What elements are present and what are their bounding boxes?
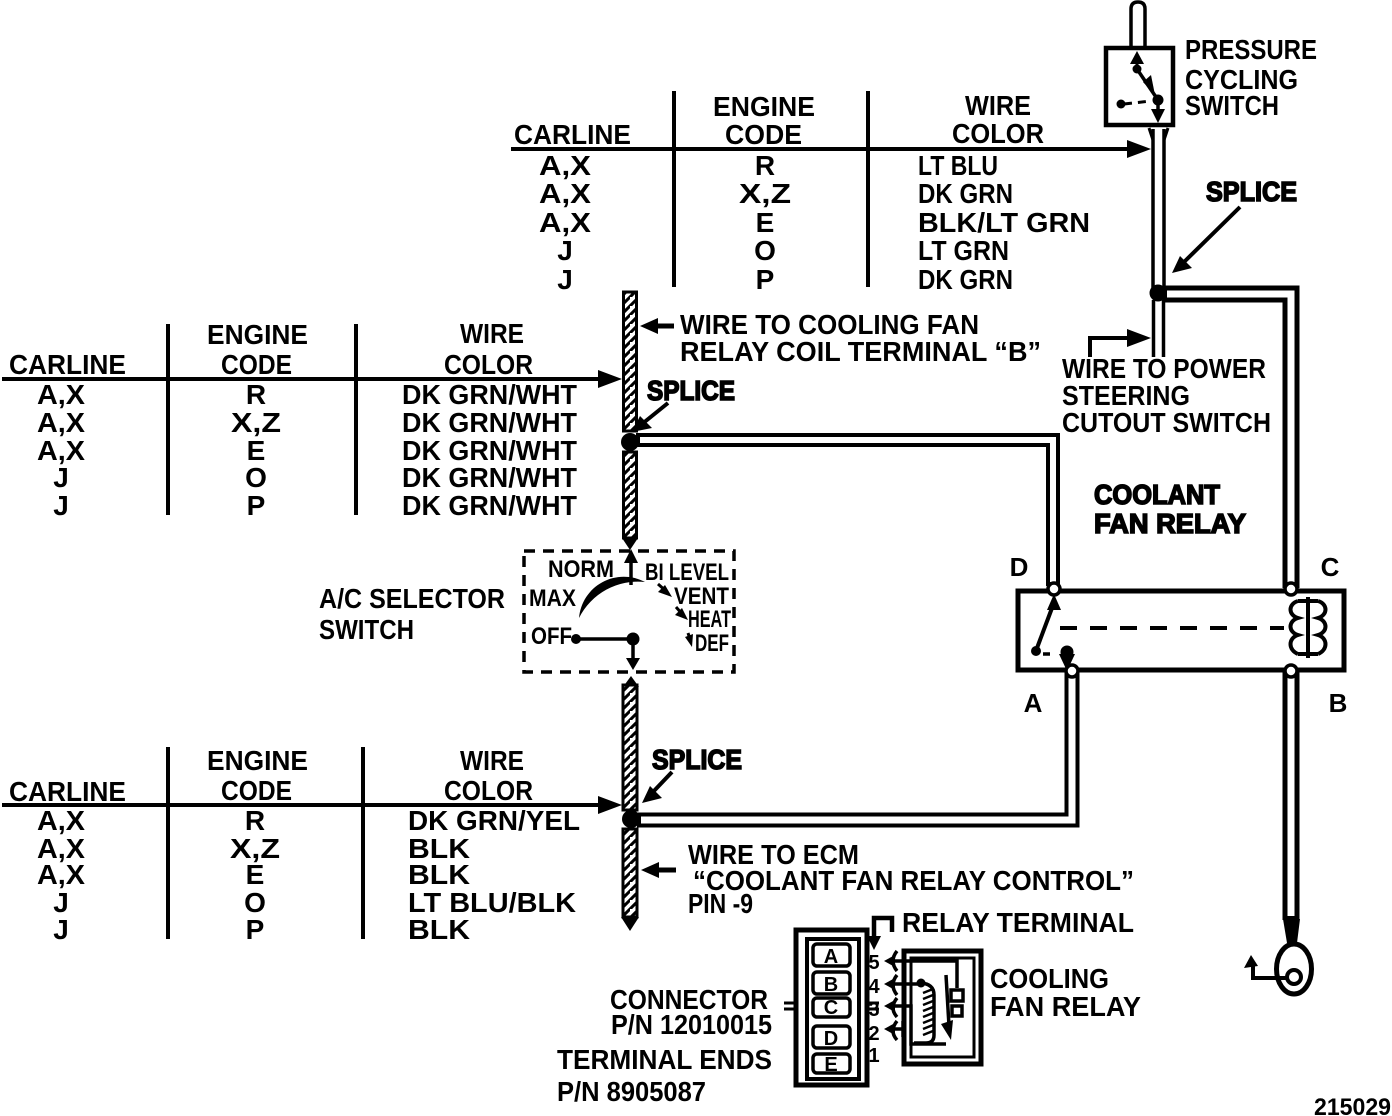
svg-text:COLOR: COLOR bbox=[444, 775, 533, 806]
svg-text:DK GRN/WHT: DK GRN/WHT bbox=[402, 490, 577, 521]
svg-text:A,X: A,X bbox=[539, 178, 591, 209]
svg-text:A,X: A,X bbox=[37, 379, 85, 410]
svg-text:X,Z: X,Z bbox=[231, 407, 281, 438]
svg-text:CUTOUT SWITCH: CUTOUT SWITCH bbox=[1062, 407, 1271, 438]
svg-text:FAN RELAY: FAN RELAY bbox=[990, 991, 1141, 1022]
svg-text:COOLANT: COOLANT bbox=[1094, 479, 1220, 510]
svg-text:J: J bbox=[53, 914, 69, 945]
svg-text:D: D bbox=[824, 1028, 838, 1050]
svg-text:PRESSURE: PRESSURE bbox=[1185, 34, 1317, 65]
svg-text:LT BLU: LT BLU bbox=[918, 150, 998, 181]
svg-text:P: P bbox=[247, 490, 266, 521]
svg-text:RELAY COIL TERMINAL “B”: RELAY COIL TERMINAL “B” bbox=[680, 336, 1041, 367]
svg-text:2: 2 bbox=[868, 1023, 879, 1045]
svg-text:LT GRN: LT GRN bbox=[918, 235, 1009, 266]
svg-text:A,X: A,X bbox=[37, 859, 85, 890]
svg-text:J: J bbox=[557, 235, 573, 266]
svg-text:X,Z: X,Z bbox=[739, 178, 791, 209]
svg-text:FAN RELAY: FAN RELAY bbox=[1094, 508, 1246, 539]
svg-text:DK GRN/YEL: DK GRN/YEL bbox=[408, 805, 580, 836]
svg-text:SPLICE: SPLICE bbox=[647, 375, 735, 406]
svg-text:CARLINE: CARLINE bbox=[9, 776, 126, 807]
svg-text:R: R bbox=[755, 150, 775, 181]
svg-text:DK GRN: DK GRN bbox=[918, 178, 1013, 209]
svg-text:SWITCH: SWITCH bbox=[319, 614, 414, 645]
svg-text:OFF: OFF bbox=[531, 623, 572, 650]
svg-text:E: E bbox=[246, 859, 265, 890]
svg-text:DK GRN/WHT: DK GRN/WHT bbox=[402, 462, 577, 493]
svg-text:SPLICE: SPLICE bbox=[652, 744, 742, 775]
svg-text:ENGINE: ENGINE bbox=[713, 91, 815, 122]
svg-text:A: A bbox=[824, 946, 838, 968]
svg-text:WIRE: WIRE bbox=[965, 90, 1031, 121]
svg-text:PIN -9: PIN -9 bbox=[688, 888, 753, 919]
svg-text:J: J bbox=[53, 490, 69, 521]
svg-text:CODE: CODE bbox=[221, 349, 292, 380]
svg-text:B: B bbox=[824, 974, 838, 996]
svg-text:SPLICE: SPLICE bbox=[1206, 176, 1297, 207]
svg-text:E: E bbox=[756, 207, 775, 238]
svg-text:“COOLANT FAN RELAY CONTROL”: “COOLANT FAN RELAY CONTROL” bbox=[693, 865, 1134, 896]
svg-text:A,X: A,X bbox=[37, 407, 85, 438]
svg-text:3: 3 bbox=[868, 999, 879, 1021]
svg-text:DK GRN/WHT: DK GRN/WHT bbox=[402, 407, 577, 438]
svg-text:BLK: BLK bbox=[408, 859, 470, 890]
svg-text:P: P bbox=[246, 914, 265, 945]
svg-text:C: C bbox=[824, 997, 838, 1019]
svg-text:WIRE: WIRE bbox=[460, 318, 524, 349]
svg-text:5: 5 bbox=[868, 952, 879, 974]
svg-text:O: O bbox=[245, 462, 267, 493]
svg-text:B: B bbox=[1329, 688, 1348, 718]
svg-text:4: 4 bbox=[868, 976, 880, 998]
svg-text:C: C bbox=[1321, 552, 1340, 582]
svg-text:MAX: MAX bbox=[529, 585, 576, 612]
svg-text:P/N 8905087: P/N 8905087 bbox=[557, 1076, 706, 1107]
svg-text:R: R bbox=[245, 805, 265, 836]
svg-text:CARLINE: CARLINE bbox=[514, 119, 631, 150]
svg-text:SWITCH: SWITCH bbox=[1185, 90, 1279, 121]
svg-text:COLOR: COLOR bbox=[952, 118, 1044, 149]
svg-text:DK GRN/WHT: DK GRN/WHT bbox=[402, 379, 577, 410]
svg-text:ENGINE: ENGINE bbox=[207, 319, 308, 350]
svg-text:A,X: A,X bbox=[539, 207, 591, 238]
svg-text:215029: 215029 bbox=[1314, 1094, 1391, 1116]
svg-text:A,X: A,X bbox=[539, 150, 591, 181]
svg-text:COLOR: COLOR bbox=[444, 349, 533, 380]
svg-text:HEAT: HEAT bbox=[688, 606, 731, 633]
svg-text:WIRE: WIRE bbox=[460, 745, 524, 776]
svg-text:DEF: DEF bbox=[695, 630, 729, 657]
svg-text:P: P bbox=[756, 264, 775, 295]
svg-text:BLK/LT GRN: BLK/LT GRN bbox=[918, 207, 1090, 238]
svg-text:COOLING: COOLING bbox=[990, 963, 1109, 994]
svg-text:CODE: CODE bbox=[725, 119, 802, 150]
svg-text:D: D bbox=[1010, 552, 1029, 582]
svg-text:J: J bbox=[53, 462, 69, 493]
svg-text:E: E bbox=[824, 1054, 837, 1076]
svg-text:A: A bbox=[1024, 688, 1043, 718]
svg-text:A,X: A,X bbox=[37, 805, 85, 836]
svg-text:CODE: CODE bbox=[221, 775, 292, 806]
svg-text:BLK: BLK bbox=[408, 914, 470, 945]
svg-text:A/C SELECTOR: A/C SELECTOR bbox=[319, 583, 505, 614]
svg-text:RELAY TERMINAL: RELAY TERMINAL bbox=[902, 907, 1134, 938]
svg-text:CARLINE: CARLINE bbox=[9, 349, 126, 380]
svg-text:O: O bbox=[754, 235, 776, 266]
svg-text:NORM: NORM bbox=[548, 556, 614, 583]
svg-text:P/N 12010015: P/N 12010015 bbox=[611, 1009, 772, 1040]
svg-text:J: J bbox=[557, 264, 573, 295]
svg-text:DK GRN: DK GRN bbox=[918, 264, 1013, 295]
svg-text:ENGINE: ENGINE bbox=[207, 745, 308, 776]
svg-text:BI LEVEL: BI LEVEL bbox=[645, 559, 729, 586]
svg-text:1: 1 bbox=[868, 1045, 879, 1067]
svg-text:R: R bbox=[246, 379, 266, 410]
svg-text:TERMINAL ENDS: TERMINAL ENDS bbox=[557, 1044, 772, 1075]
